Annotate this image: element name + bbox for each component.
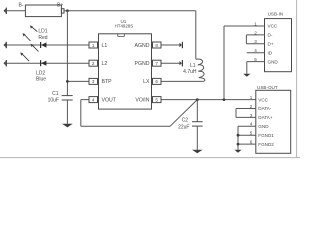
svg-text:B+: B+	[57, 3, 63, 9]
wire LX	[161, 80, 202, 82]
svg-text:L1: L1	[190, 63, 196, 69]
label Blue	[36, 77, 46, 83]
svg-text:HT4928S: HT4928S	[115, 23, 134, 28]
connector pad P3 (LED2)	[4, 60, 7, 66]
pin 5 number (USB-OUT)	[250, 131, 253, 136]
wire VOUT diagonal	[170, 100, 197, 127]
pin 2 number (USB-OUT)	[250, 104, 253, 109]
wire VOUT left	[81, 99, 89, 101]
pin 3 number	[92, 79, 95, 84]
svg-text:USB-IN: USB-IN	[268, 11, 284, 16]
node C2 junction	[196, 98, 199, 101]
node USB-IN VCC junction	[223, 98, 226, 101]
pin FGND1 label	[258, 133, 274, 138]
label B+	[57, 3, 63, 9]
pin VCC label (USB-IN)	[268, 24, 278, 29]
svg-text:VO/IN: VO/IN	[135, 97, 149, 103]
svg-text:C1: C1	[52, 91, 59, 97]
pin GND label (USB-OUT)	[258, 124, 269, 129]
pin 1 number	[92, 43, 95, 48]
pin 4 number (USB-OUT)	[250, 122, 253, 127]
pin 6 number	[155, 79, 158, 84]
wire VOUT down	[80, 100, 82, 127]
wire D+	[246, 43, 264, 45]
svg-text:D-: D-	[268, 33, 273, 38]
pin 8 number	[155, 43, 158, 48]
capacitor C2	[192, 100, 203, 150]
node FGND1 junction	[237, 134, 240, 137]
pin 7 box	[152, 60, 162, 66]
svg-text:3: 3	[92, 79, 95, 84]
ground (USB-IN)	[243, 74, 250, 77]
svg-text:GND: GND	[258, 124, 269, 129]
svg-text:C2: C2	[182, 117, 189, 123]
wire FGND1	[238, 134, 256, 136]
wire B+ vertical rail	[66, 11, 68, 96]
svg-text:Blue: Blue	[36, 77, 46, 83]
pin D+ label	[268, 42, 274, 47]
wire USB-IN VCC horizontal	[224, 25, 265, 27]
svg-text:7: 7	[155, 61, 158, 66]
pin D- label	[268, 33, 273, 38]
svg-text:BTP: BTP	[102, 79, 113, 85]
svg-text:22uF: 22uF	[178, 125, 189, 131]
sheet border bottom	[0, 157, 300, 159]
svg-text:FGND2: FGND2	[258, 142, 274, 147]
pin 6 box	[152, 78, 162, 84]
label USB-IN	[268, 11, 284, 16]
pin 3 number (USB-OUT)	[250, 113, 253, 118]
svg-text:4: 4	[92, 97, 95, 102]
label B-	[19, 3, 24, 9]
pin ID label	[268, 50, 273, 55]
pin 3 number (USB-IN)	[254, 39, 257, 44]
node FGND2 junction	[237, 143, 240, 146]
pin 8 box	[152, 42, 162, 48]
label U1	[120, 19, 126, 24]
pin VO/IN label	[135, 97, 149, 103]
connector pad PGND	[180, 60, 184, 66]
svg-text:GND: GND	[268, 59, 279, 64]
ground (USB-OUT)	[234, 150, 241, 153]
wire D-/D+ short loop	[245, 35, 247, 44]
pin 6 number (USB-OUT)	[250, 140, 253, 145]
pin AGND label	[135, 43, 150, 49]
inductor L1	[196, 11, 205, 82]
svg-text:LD1: LD1	[38, 29, 47, 35]
svg-text:1: 1	[92, 43, 95, 48]
pin DATA- label	[258, 106, 272, 111]
pin DATA+ label	[258, 115, 273, 120]
svg-text:DATA-: DATA-	[258, 106, 272, 111]
connector USB-IN box	[265, 19, 292, 72]
wire GND tie vertical	[237, 126, 239, 149]
pin 1 number (USB-IN)	[254, 21, 257, 26]
pin VCC label (USB-OUT)	[258, 97, 268, 102]
svg-text:D+: D+	[268, 42, 274, 47]
pin 4 number	[92, 97, 95, 102]
wire USB-IN VCC vertical	[223, 26, 225, 100]
svg-text:5: 5	[155, 97, 158, 102]
svg-text:VCC: VCC	[258, 97, 268, 102]
wire VO/IN net	[161, 99, 256, 101]
wire GND (USB-OUT)	[238, 125, 256, 127]
pin 2 number	[92, 61, 95, 66]
label USB-OUT	[257, 85, 278, 90]
svg-text:DATA+: DATA+	[258, 115, 273, 120]
connector USB-OUT box	[256, 90, 291, 153]
wire GND (USB-IN)	[247, 62, 265, 74]
svg-text:10uF: 10uF	[48, 97, 59, 103]
wire PGND	[161, 62, 180, 64]
wire LED2 row	[7, 62, 89, 64]
svg-text:Red: Red	[38, 35, 47, 41]
wire B- to battery	[7, 10, 26, 12]
svg-text:8: 8	[155, 43, 158, 48]
pin 2 box	[89, 60, 99, 66]
pin 1 number (USB-OUT)	[250, 95, 253, 100]
pin FGND2 label	[258, 142, 274, 147]
pin 5 number	[155, 97, 158, 102]
label HT4928S	[115, 23, 134, 28]
pin 4 box	[89, 97, 99, 103]
svg-text:1: 1	[250, 95, 253, 100]
label C1	[52, 91, 59, 97]
label LD2	[36, 71, 45, 77]
label C2	[182, 117, 189, 123]
svg-text:2: 2	[92, 61, 95, 66]
svg-text:6: 6	[155, 79, 158, 84]
pin 3 box	[89, 78, 99, 84]
wire AGND	[161, 44, 180, 46]
LED LD1 arrows	[23, 25, 38, 41]
ground (C2)	[192, 150, 203, 154]
label 4.7uH	[183, 69, 197, 75]
svg-text:4.7uH: 4.7uH	[183, 69, 197, 75]
connector pad AGND	[180, 42, 184, 48]
wire FGND2	[238, 143, 256, 145]
svg-text:USB-OUT: USB-OUT	[257, 85, 278, 90]
pin BTP label	[102, 79, 113, 85]
pin L2 label	[102, 61, 108, 67]
svg-text:LX: LX	[143, 79, 150, 85]
sheet border right	[296, 0, 298, 158]
pin PGND label	[135, 61, 150, 67]
battery BT1	[25, 5, 64, 17]
capacitor C1	[62, 96, 73, 124]
pin 2 number (USB-IN)	[254, 30, 257, 35]
wire D-	[246, 34, 264, 36]
wire DATA loop	[235, 109, 237, 118]
ground (C1)	[62, 124, 73, 128]
pin 1 box	[89, 42, 99, 48]
wire battery to corner	[64, 10, 196, 12]
pin 5 number (USB-IN)	[254, 57, 257, 62]
pin VOUT label	[102, 97, 117, 103]
wire ID stub	[247, 52, 265, 54]
pin 5 box	[152, 97, 162, 103]
svg-text:VOUT: VOUT	[102, 97, 117, 103]
wire DATA-	[236, 108, 256, 110]
LED LD1	[40, 42, 46, 48]
connector pad P2 (LED1)	[4, 42, 7, 48]
pin LX label	[143, 79, 150, 85]
label 10uF	[48, 97, 59, 103]
pin L1 label	[102, 43, 108, 49]
svg-text:AGND: AGND	[135, 43, 150, 49]
svg-text:L1: L1	[102, 43, 108, 49]
LED LD2	[40, 60, 46, 66]
wire DATA+	[236, 116, 256, 118]
wire VOUT bottom run	[81, 125, 170, 127]
pin 7 number	[155, 61, 158, 66]
wire BTP	[67, 80, 89, 82]
label Red	[38, 35, 47, 41]
svg-text:VCC: VCC	[268, 24, 278, 29]
wire LED1 row	[7, 44, 89, 46]
svg-text:FGND1: FGND1	[258, 133, 274, 138]
connector pad P1 (battery row)	[4, 8, 7, 14]
node B+ junction	[66, 9, 69, 12]
label LD1	[38, 29, 47, 35]
svg-text:PGND: PGND	[135, 61, 150, 67]
node BTP junction	[66, 80, 69, 83]
svg-text:B-: B-	[19, 3, 24, 9]
IC U1 HT4928S outline	[99, 34, 152, 109]
label L1 (inductor)	[190, 63, 196, 69]
label 22uF	[178, 125, 189, 131]
svg-text:1: 1	[254, 21, 257, 26]
svg-text:ID: ID	[268, 50, 273, 55]
svg-text:L2: L2	[102, 61, 108, 67]
LED LD2 arrows	[20, 44, 38, 61]
pin GND label (USB-IN)	[268, 59, 279, 64]
pin 4 number (USB-IN)	[254, 48, 257, 53]
